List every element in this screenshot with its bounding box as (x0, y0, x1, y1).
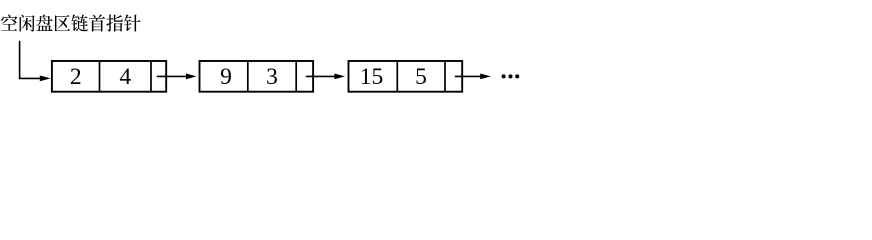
continuation dot 3 (515, 74, 519, 78)
continuation dot 1 (502, 74, 506, 78)
node 2 divider 2 (295, 61, 297, 92)
svg-text:15: 15 (360, 64, 384, 90)
node 1 box (52, 61, 166, 92)
node 2 divider 1 (247, 61, 249, 92)
node 1 divider 2 (150, 61, 152, 92)
node 1 divider 1 (99, 61, 101, 92)
svg-text:9: 9 (220, 64, 232, 90)
node 2 box (200, 61, 314, 92)
arrowhead into node 1 (40, 76, 51, 82)
svg-text:2: 2 (70, 64, 82, 90)
arrowhead into node 3 (334, 74, 345, 80)
svg-text:5: 5 (415, 64, 427, 90)
wire: node 1 to node 2 (157, 75, 187, 77)
node 3 divider 1 (396, 61, 398, 92)
wire: node 2 to node 3 (306, 75, 336, 77)
arrowhead to continuation (480, 74, 491, 80)
continuation dot 2 (508, 74, 512, 78)
arrowhead into node 2 (186, 74, 197, 80)
svg-text:4: 4 (119, 64, 131, 90)
label: 空闲盘区链首指针 (free extent chain head pointer) (1, 14, 141, 31)
node 3 box (349, 61, 463, 92)
svg-text:3: 3 (266, 64, 278, 90)
wire: node 3 to continuation (455, 75, 481, 77)
node 3 divider 2 (444, 61, 446, 92)
wire: head pointer elbow (down from label, right to node 1) (20, 41, 41, 79)
